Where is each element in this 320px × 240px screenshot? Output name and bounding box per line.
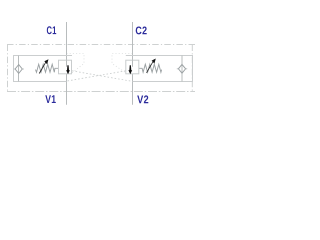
left relief spring xyxy=(36,64,59,72)
right valve envelope xyxy=(126,56,193,82)
wire V2 xyxy=(132,74,134,105)
wire C2 xyxy=(132,22,134,60)
left check valve diamond xyxy=(15,65,22,74)
left flow arrow inside box xyxy=(66,60,68,67)
right check valve branch wire xyxy=(181,56,183,82)
wire C1 xyxy=(66,22,68,60)
right flow arrow inside box xyxy=(132,60,134,67)
pilot cross line right-to-left xyxy=(67,71,126,81)
pilot line dotted from C1 xyxy=(67,54,133,73)
right relief spring xyxy=(139,64,162,72)
right relief valve box xyxy=(126,60,139,74)
right spring adjustment arrow xyxy=(147,59,156,73)
right check valve diamond xyxy=(178,64,185,73)
left relief valve box xyxy=(59,60,72,74)
port label V2 xyxy=(137,95,148,103)
pilot line dotted from C2 xyxy=(112,54,133,73)
left spring adjustment arrow xyxy=(39,59,48,73)
port label V1 xyxy=(45,95,56,103)
left valve envelope xyxy=(14,56,73,82)
port label C1 xyxy=(47,26,56,34)
pilot cross line left-to-right xyxy=(72,71,132,82)
boundary dash-dot enclosure xyxy=(7,45,195,92)
port label C2 xyxy=(136,27,147,35)
left check valve branch wire xyxy=(18,56,20,82)
wire V1 xyxy=(66,74,68,105)
